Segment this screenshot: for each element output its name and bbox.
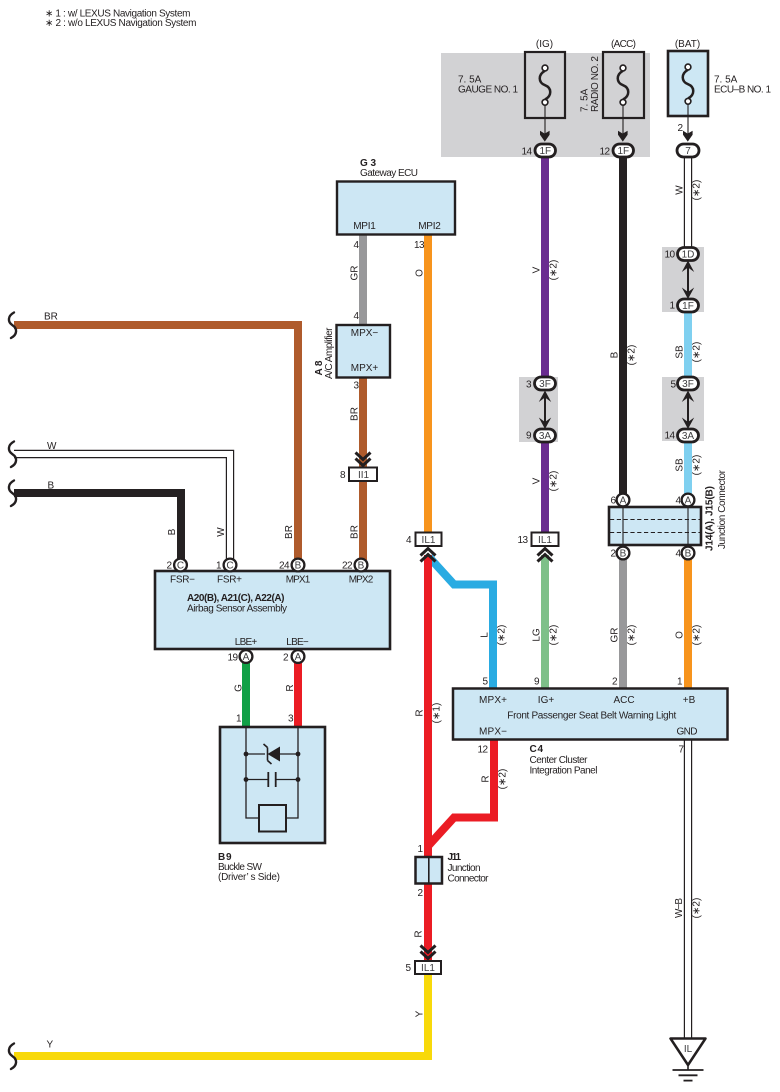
wire label LG (*2): [532, 625, 560, 646]
gray box double arrow 1D-1F: [682, 261, 694, 300]
pin circle LBE+ 19A: [240, 650, 253, 663]
svg-text:1: 1: [417, 844, 423, 855]
wire R main IL1 to IL1: [424, 555, 432, 962]
svg-text:B: B: [610, 351, 621, 358]
svg-text:1F: 1F: [539, 146, 551, 157]
svg-text:4: 4: [353, 311, 359, 322]
wire label B (*2): [610, 345, 638, 366]
svg-text:O: O: [675, 631, 686, 639]
svg-text:Airbag Sensor Assembly: Airbag Sensor Assembly: [187, 603, 287, 614]
pin circle LBE- 2A: [292, 650, 305, 663]
svg-text:MPI1: MPI1: [353, 221, 376, 232]
connector box II1: [349, 468, 377, 482]
svg-text:ECU–B NO. 1: ECU–B NO. 1: [714, 85, 771, 96]
svg-text:R: R: [481, 775, 492, 782]
wire R LBE- to buckle 3: [294, 662, 302, 728]
svg-text:7. 5A: 7. 5A: [580, 88, 591, 112]
svg-text:8: 8: [340, 470, 346, 481]
svg-text:MPI2: MPI2: [418, 221, 441, 232]
svg-text:IL1: IL1: [421, 963, 435, 974]
gray box double arrow 3F-3A right: [682, 391, 694, 430]
wire B ACC fuse to junction 6A: [619, 156, 627, 495]
wire BR MPX+ to II1: [359, 377, 367, 468]
svg-text:(∗2): (∗2): [627, 345, 638, 366]
svg-text:1: 1: [236, 714, 242, 725]
svg-text:A: A: [243, 652, 250, 663]
svg-text:ACC: ACC: [613, 695, 634, 706]
svg-text:(∗2): (∗2): [497, 625, 508, 646]
svg-text:3A: 3A: [539, 431, 552, 442]
svg-text:1F: 1F: [682, 301, 694, 312]
svg-text:A: A: [685, 496, 692, 507]
connector oval 1D: [678, 248, 699, 261]
connector oval 3A violet: [535, 429, 556, 442]
svg-text:V: V: [532, 477, 543, 484]
svg-text:(∗2): (∗2): [692, 625, 703, 646]
svg-text:2: 2: [417, 888, 423, 899]
svg-text:SB: SB: [675, 345, 686, 359]
wire W horizontal to FSR+: [14, 454, 230, 560]
svg-text:G: G: [234, 684, 245, 692]
svg-text:13: 13: [414, 240, 425, 251]
wire label L (*2): [480, 625, 508, 646]
wire V 3A to IL1: [541, 441, 549, 534]
wire O MPI2 to IL1: [424, 234, 432, 534]
ground symbol IL: [671, 1039, 706, 1081]
wire SB 3A to junction 4A: [684, 441, 692, 495]
wire LG IL1 to IG+: [541, 555, 549, 689]
svg-text:MPX−: MPX−: [351, 328, 379, 339]
svg-text:B: B: [167, 528, 178, 535]
svg-text:LG: LG: [532, 628, 543, 642]
gray connector block 1D/1F: [662, 247, 704, 312]
connector box 5 IL1: [415, 961, 441, 974]
svg-text:Y: Y: [47, 1040, 54, 1051]
wire GR junction 2B to ACC pin: [619, 558, 627, 689]
connector box 13 IL1: [532, 533, 559, 547]
arrow ACC fuse feed: [618, 105, 628, 142]
junction connector J11 box: [416, 857, 443, 884]
label fuse ECU-B NO. 1: [714, 75, 771, 96]
svg-text:(∗2): (∗2): [498, 769, 509, 790]
svg-text:Junction Connector: Junction Connector: [717, 469, 728, 549]
svg-text:(∗2): (∗2): [692, 455, 703, 476]
label A 8 A/C Amplifier vertical: [314, 327, 335, 379]
svg-text:5: 5: [405, 963, 411, 974]
svg-text:2: 2: [610, 549, 616, 560]
svg-text:B: B: [620, 549, 627, 560]
chevron arrows under 4 IL1: [421, 549, 436, 562]
wire BR II1 to MPX2: [359, 480, 367, 560]
label J11 Junction Connector: [448, 852, 490, 884]
junction connector J14/J15 box: [609, 507, 701, 545]
C4 Center Cluster Integration Panel box: [453, 689, 728, 740]
svg-text:GR: GR: [350, 266, 361, 281]
svg-text:Gateway ECU: Gateway ECU: [360, 168, 418, 179]
fuse GAUGE NO. 1 (IG): [525, 52, 565, 118]
svg-text:W: W: [675, 185, 686, 195]
svg-text:14: 14: [522, 147, 533, 158]
svg-text:3: 3: [526, 380, 532, 391]
svg-text:4: 4: [675, 549, 681, 560]
svg-text:IL1: IL1: [422, 535, 436, 546]
svg-text:Front Passenger Seat Belt Warn: Front Passenger Seat Belt Warning Light: [507, 711, 676, 722]
svg-text:(∗1): (∗1): [432, 703, 443, 724]
fuse RADIO NO. 2 (ACC): [603, 52, 644, 118]
svg-text:RADIO NO. 2: RADIO NO. 2: [590, 56, 601, 112]
svg-text:14: 14: [665, 431, 676, 442]
svg-text:2: 2: [612, 677, 618, 688]
chevron arrows into 5 IL1: [421, 946, 436, 959]
svg-text:LBE−: LBE−: [286, 637, 309, 648]
svg-text:V: V: [532, 266, 543, 273]
svg-text:∗ 2 : w/o LEXUS Navigation Sys: ∗ 2 : w/o LEXUS Navigation System: [45, 18, 197, 29]
wire W-B GND to ground: [684, 739, 692, 1038]
svg-text:B: B: [295, 561, 302, 572]
chevron arrows under 13 IL1: [538, 549, 553, 562]
svg-text:Integration Panel: Integration Panel: [530, 765, 598, 776]
svg-text:MPX2: MPX2: [349, 575, 374, 586]
svg-text:BR: BR: [350, 407, 361, 421]
label B 9 Buckle SW: [218, 852, 280, 883]
svg-text:1F: 1F: [617, 146, 629, 157]
svg-text:A/C Amplifier: A/C Amplifier: [324, 327, 335, 379]
svg-text:J14(A), J15(B): J14(A), J15(B): [705, 486, 716, 551]
svg-text:4: 4: [406, 535, 412, 546]
svg-text:BR: BR: [284, 525, 295, 539]
svg-text:2: 2: [166, 561, 172, 572]
wire O junction 4B to +B pin: [684, 558, 692, 689]
pin circle 4B junction: [682, 547, 695, 560]
capacitor: [244, 772, 301, 787]
gray connector block 3F/3A violet: [519, 377, 558, 442]
wire V IG fuse to 3F: [541, 156, 549, 378]
svg-text:FSR−: FSR−: [170, 575, 195, 586]
svg-text:W−B: W−B: [674, 898, 685, 918]
svg-text:C: C: [177, 561, 184, 572]
note text: [45, 8, 197, 29]
svg-text:1D: 1D: [682, 249, 695, 260]
break squiggle W: [9, 442, 16, 468]
svg-text:MPX+: MPX+: [479, 695, 507, 706]
gray connector block 3F/3A right: [662, 377, 704, 441]
svg-text:1: 1: [669, 301, 675, 312]
wire label R (*2) from MPX-: [481, 769, 509, 790]
connector oval 3A right: [678, 429, 699, 442]
svg-text:3A: 3A: [682, 431, 695, 442]
svg-text:R: R: [414, 930, 425, 937]
wire Y IL1 to left edge: [14, 973, 428, 1056]
svg-text:O: O: [415, 269, 426, 277]
svg-text:5: 5: [670, 380, 676, 391]
svg-text:19: 19: [228, 653, 239, 664]
switch resistor square: [259, 805, 286, 832]
svg-text:(Driver’ s Side): (Driver’ s Side): [218, 872, 280, 883]
wire W BAT 7 to 1D: [684, 156, 692, 248]
svg-text:GR: GR: [610, 628, 621, 643]
svg-text:+B: +B: [683, 695, 696, 706]
svg-text:R: R: [285, 684, 296, 691]
label fuse RADIO NO. 2 vertical: [580, 56, 602, 112]
wire label SB (*2) lower: [675, 455, 703, 476]
svg-text:(∗2): (∗2): [627, 625, 638, 646]
wire label SB (*2) upper: [675, 342, 703, 363]
wire label V (*2) upper: [532, 260, 560, 281]
svg-text:6: 6: [610, 496, 616, 507]
svg-text:(∗2): (∗2): [692, 898, 703, 919]
svg-text:GAUGE NO. 1: GAUGE NO. 1: [458, 85, 518, 96]
connector oval 3F violet: [535, 377, 556, 390]
svg-text:BR: BR: [44, 312, 58, 323]
pin circle 6A junction: [617, 494, 630, 507]
svg-text:3: 3: [353, 381, 359, 392]
svg-text:Connector: Connector: [448, 873, 490, 884]
svg-text:A: A: [295, 652, 302, 663]
wire GR MPI1 to MPX-: [359, 234, 367, 326]
pin circle FSR- 2C: [174, 559, 187, 572]
connector circle 7 (BAT): [677, 144, 699, 157]
break squiggle B: [9, 481, 16, 507]
svg-text:3F: 3F: [539, 379, 551, 390]
svg-text:R: R: [415, 709, 426, 716]
connector oval 3F right: [678, 377, 699, 390]
svg-text:(IG): (IG): [536, 39, 553, 50]
svg-text:BR: BR: [350, 525, 361, 539]
svg-text:22: 22: [342, 561, 353, 572]
svg-text:12: 12: [478, 745, 489, 756]
svg-text:(∗2): (∗2): [549, 260, 560, 281]
fuse ECU-B NO. 1 (BAT): [668, 51, 708, 116]
pin circle FSR+ 1C: [224, 559, 237, 572]
svg-text:2: 2: [677, 123, 683, 134]
svg-text:5: 5: [482, 677, 488, 688]
svg-text:7: 7: [678, 745, 684, 756]
arrow IG fuse feed: [540, 105, 550, 142]
svg-text:10: 10: [665, 250, 676, 261]
zener diode: [244, 744, 301, 764]
Buckle SW box B9: [220, 727, 325, 843]
svg-text:MPX1: MPX1: [286, 575, 311, 586]
label G 3 Gateway ECU: [360, 158, 418, 179]
connector oval 1F (IG): [535, 144, 556, 157]
svg-text:SB: SB: [675, 458, 686, 472]
label C 4 Center Cluster Integration Panel: [530, 744, 598, 776]
wire label V (*2) lower: [532, 471, 560, 492]
svg-text:MPX+: MPX+: [351, 363, 379, 374]
wire BR horizontal to MPX1: [14, 325, 298, 560]
svg-text:Junction: Junction: [448, 863, 481, 874]
Gateway ECU box G3: [337, 182, 455, 235]
A/C Amplifier box A8: [337, 325, 391, 378]
svg-text:13: 13: [518, 535, 529, 546]
svg-text:C: C: [226, 561, 233, 572]
connector box 4 IL1: [416, 533, 442, 547]
pin circle 4A junction: [682, 494, 695, 507]
svg-text:IG+: IG+: [538, 695, 555, 706]
svg-text:B: B: [685, 549, 692, 560]
svg-text:12: 12: [600, 147, 611, 158]
gray box double arrow 3F-3A violet: [539, 391, 551, 430]
svg-text:9: 9: [534, 677, 540, 688]
svg-text:C 4: C 4: [530, 744, 544, 755]
svg-text:J11: J11: [448, 852, 462, 863]
label J14(A), J15(B) Junction Connector vertical: [705, 469, 729, 551]
wire B horizontal to FSR-: [14, 493, 181, 560]
svg-text:3F: 3F: [682, 379, 694, 390]
pin circle MPX1 24B: [292, 559, 305, 572]
svg-text:(BAT): (BAT): [675, 39, 700, 50]
wire label O (*2) lower: [675, 625, 703, 646]
svg-text:A: A: [620, 496, 627, 507]
connector oval 1F (right col): [678, 299, 699, 312]
svg-text:3: 3: [288, 714, 294, 725]
wire label W (*2): [675, 180, 703, 201]
svg-text:1: 1: [677, 677, 683, 688]
svg-text:B: B: [48, 481, 55, 492]
buckle internal rails: [246, 728, 298, 818]
svg-text:(∗2): (∗2): [549, 625, 560, 646]
svg-text:4: 4: [353, 240, 359, 251]
svg-text:II1: II1: [358, 470, 370, 481]
break squiggle Y: [9, 1044, 16, 1070]
wire G LBE+ to buckle 1: [242, 662, 250, 728]
arrow BAT fuse feed: [683, 104, 693, 142]
pin circle MPX2 22B: [355, 559, 368, 572]
wire R MPX- to J11: [429, 739, 494, 845]
gray fuse block background: [441, 53, 650, 157]
wire label GR (*2) lower: [610, 625, 638, 646]
wire SB 1F to 3F: [684, 311, 692, 378]
svg-text:W: W: [47, 441, 57, 452]
svg-text:(ACC): (ACC): [611, 39, 636, 50]
svg-text:IL: IL: [684, 1044, 693, 1055]
chevron arrows into II1: [356, 453, 371, 466]
Airbag Sensor Assembly box: [155, 571, 390, 649]
break squiggle BR: [9, 313, 16, 339]
label fuse GAUGE NO. 1: [458, 75, 518, 96]
svg-text:W: W: [216, 527, 227, 537]
svg-text:24: 24: [279, 561, 290, 572]
svg-text:MPX−: MPX−: [479, 727, 507, 738]
svg-text:B: B: [358, 561, 365, 572]
svg-text:1: 1: [216, 561, 222, 572]
svg-text:(∗2): (∗2): [549, 471, 560, 492]
wire label W-B (*2): [674, 898, 703, 919]
svg-text:2: 2: [283, 653, 289, 664]
svg-text:(∗2): (∗2): [692, 180, 703, 201]
svg-text:Center Cluster: Center Cluster: [530, 755, 589, 766]
pin circle 2B junction: [617, 547, 630, 560]
wire label R (*1) main: [415, 703, 443, 724]
wire L IL1 branch to MPX+: [429, 557, 493, 689]
svg-text:(∗2): (∗2): [692, 342, 703, 363]
connector oval 1F (ACC): [613, 144, 634, 157]
svg-text:LBE+: LBE+: [235, 637, 258, 648]
svg-text:7: 7: [685, 146, 691, 157]
svg-text:9: 9: [526, 431, 532, 442]
svg-text:4: 4: [675, 496, 681, 507]
svg-text:GND: GND: [677, 727, 698, 738]
svg-text:FSR+: FSR+: [217, 575, 242, 586]
svg-text:IL1: IL1: [538, 535, 552, 546]
svg-text:Y: Y: [415, 1010, 426, 1017]
svg-text:L: L: [480, 632, 491, 638]
